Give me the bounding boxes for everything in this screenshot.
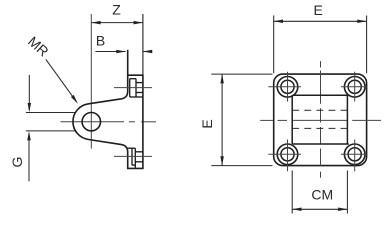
plate bottom edge bbox=[127, 167, 144, 169]
top bar bottom edge bbox=[293, 94, 349, 96]
dimension E (left, vertical) bbox=[199, 74, 273, 166]
wire: eye horizontal center line (dash-dot) bbox=[61, 121, 157, 123]
dimension B bbox=[95, 33, 152, 54]
dimension Z bbox=[91, 2, 143, 25]
top bolt counterbore profile bbox=[130, 79, 143, 97]
bottom bolt counterbore profile bbox=[127, 148, 143, 168]
wire: bottom bolt axis center line bbox=[114, 155, 152, 157]
bolt hole top-left bbox=[268, 72, 301, 102]
wire: MR leader line with arrow bbox=[46, 59, 78, 103]
flange outer square bbox=[274, 74, 367, 166]
wire: eye vertical center line bbox=[90, 14, 92, 149]
wire: plate right face extension up to Z dim bbox=[142, 14, 144, 75]
svg-text:E: E bbox=[314, 2, 323, 18]
dimension E (top) bbox=[274, 2, 367, 73]
wire: view horizontal center line (dash-dot) bbox=[260, 119, 381, 121]
hidden hole dashed lines bbox=[292, 110, 347, 128]
dimension G arrow (up) bbox=[27, 131, 31, 181]
bolt hole bottom-left bbox=[268, 140, 301, 172]
svg-text:Z: Z bbox=[112, 2, 121, 18]
clevis inner rect verticals bbox=[292, 95, 349, 144]
node: hole bottom reference line bbox=[26, 130, 76, 132]
dimension CM (bottom) bbox=[292, 171, 347, 214]
plate top edge bbox=[127, 74, 144, 76]
eye hole circle bbox=[82, 113, 100, 131]
wire: top bolt axis center line bbox=[114, 87, 152, 89]
plate right face bbox=[142, 75, 144, 168]
svg-text:G: G bbox=[9, 157, 25, 168]
clevis body outline: boss arc + web + plate left face bbox=[73, 50, 128, 168]
svg-text:E: E bbox=[199, 119, 215, 128]
node: hole top reference line bbox=[26, 112, 76, 114]
wire: hole diameter arrow (down) bbox=[28, 75, 32, 112]
svg-text:CM: CM bbox=[311, 186, 333, 202]
bolt hole bottom-right bbox=[341, 140, 367, 172]
bottom bar top edge bbox=[293, 143, 349, 145]
bolt hole top-right bbox=[341, 72, 367, 102]
wire: view vertical center line (dash-dot) bbox=[320, 61, 322, 178]
svg-text:B: B bbox=[96, 33, 105, 49]
